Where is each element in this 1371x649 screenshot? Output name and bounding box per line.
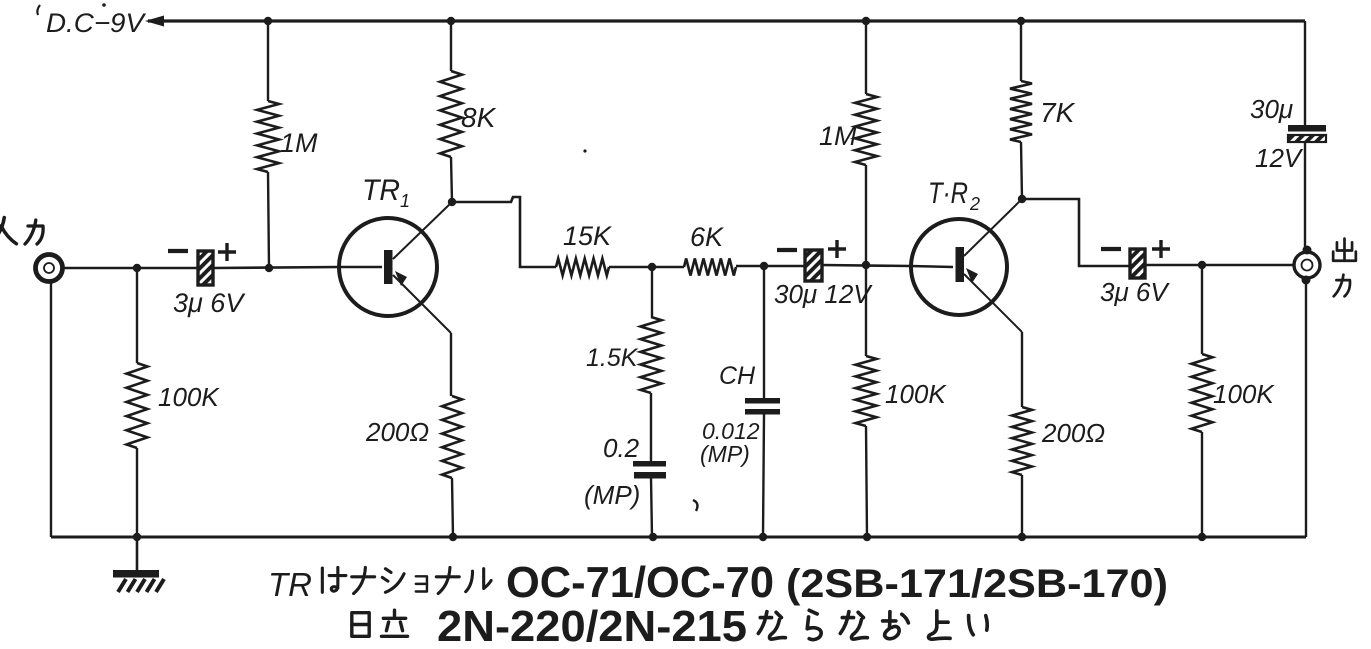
svg-text:200Ω: 200Ω (365, 417, 429, 447)
svg-text:30μ 12V: 30μ 12V (774, 279, 873, 309)
svg-text:30μ: 30μ (1250, 94, 1293, 124)
svg-text:D.C−9V: D.C−9V (46, 8, 147, 38)
svg-text:2: 2 (969, 194, 980, 214)
svg-text:100K: 100K (1213, 379, 1275, 409)
svg-text:OC-71/OC-70: OC-71/OC-70 (506, 558, 774, 607)
svg-text:200Ω: 200Ω (1041, 418, 1105, 448)
svg-text:8K: 8K (461, 102, 497, 133)
svg-text:CH: CH (719, 362, 756, 390)
svg-text:T·R: T·R (928, 177, 968, 210)
svg-text:(MP): (MP) (700, 441, 750, 467)
svg-text:1M: 1M (280, 128, 318, 158)
svg-text:(2SB-171/2SB-170): (2SB-171/2SB-170) (786, 562, 1168, 606)
svg-text:TR: TR (268, 566, 312, 603)
svg-text:12V: 12V (1255, 143, 1304, 173)
svg-text:(MP): (MP) (584, 480, 640, 510)
svg-text:6K: 6K (690, 222, 724, 252)
svg-text:100K: 100K (885, 379, 947, 409)
svg-text:0.2: 0.2 (603, 433, 640, 463)
svg-text:100K: 100K (158, 382, 220, 412)
svg-text:3μ 6V: 3μ 6V (1100, 277, 1170, 307)
svg-text:3μ 6V: 3μ 6V (173, 288, 246, 318)
svg-text:TR: TR (362, 174, 400, 207)
svg-text:2N-220/2N-215: 2N-220/2N-215 (437, 602, 747, 649)
svg-text:7K: 7K (1040, 97, 1076, 128)
svg-text:15K: 15K (563, 221, 612, 251)
svg-text:1.5K: 1.5K (586, 344, 639, 372)
svg-text:1: 1 (400, 191, 410, 211)
svg-text:1M: 1M (819, 121, 857, 151)
